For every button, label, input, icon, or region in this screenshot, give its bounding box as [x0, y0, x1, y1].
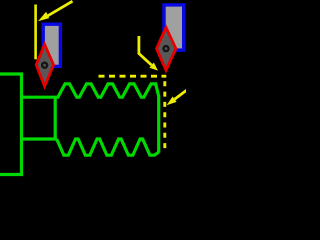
- insert diamond 1 (left): [36, 45, 53, 87]
- chuck outline: [0, 74, 22, 175]
- insert diamond 2 (right): [157, 28, 176, 71]
- tool holder 1 (left): [43, 24, 60, 66]
- dashed stock outline horizontal: [99, 75, 167, 78]
- arrow 1 shaft (top left): [48, 1, 73, 16]
- arrow 3 shaft (right): [175, 90, 187, 99]
- yellow reference line (left): [34, 5, 37, 60]
- shank bottom line C: [20, 137, 57, 140]
- dashed stock outline vertical: [163, 81, 166, 152]
- tool holder 2 (right): [164, 5, 184, 50]
- arrow 3 head: [167, 97, 177, 106]
- workpiece end face: [157, 96, 160, 153]
- arrow 1 head: [38, 12, 49, 21]
- arrow 2 head: [149, 63, 158, 71]
- insert circle 2: [162, 45, 169, 52]
- top thread profile zigzag: [58, 84, 159, 97]
- arrow 2 shaft (middle, bent): [139, 36, 152, 65]
- shank top line A: [20, 96, 59, 99]
- insert circle 1: [41, 61, 48, 68]
- bottom thread profile zigzag: [57, 139, 159, 155]
- shoulder face B: [54, 96, 57, 141]
